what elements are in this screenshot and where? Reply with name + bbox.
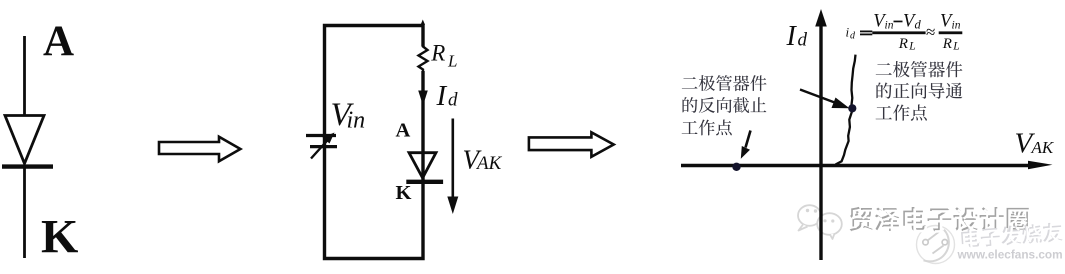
svg-text:R: R <box>942 36 952 52</box>
loop current direction nub (top-right corner) <box>421 20 425 25</box>
annotation: reverse cutoff operating point (CJK) <box>682 77 698 88</box>
svg-text:AK: AK <box>1031 138 1055 157</box>
svg-text:www.elecfans.com: www.elecfans.com <box>957 248 1063 262</box>
svg-text:A: A <box>396 120 411 142</box>
operating point dot (forward) <box>848 104 856 112</box>
formula id=(Vin-Vd)/RL approx Vin/RL <box>846 11 961 52</box>
diode forward curve <box>836 55 856 165</box>
watermark text Mouzer design circle <box>850 207 873 231</box>
watermark wechat bubbles logo <box>798 205 842 239</box>
svg-text:K: K <box>41 211 78 264</box>
operating point dot (reverse, on axis) <box>732 163 740 171</box>
svg-text:d: d <box>448 90 458 111</box>
resistor RL zigzag <box>419 44 428 71</box>
svg-text:R: R <box>430 41 445 66</box>
source Vin bottom plate <box>310 145 337 148</box>
diode D-left cathode bar <box>2 164 53 168</box>
svg-text:in: in <box>885 19 894 31</box>
annotation: forward conduction operating point (CJK) <box>876 63 892 75</box>
wire: anode lead of big diode <box>23 36 26 116</box>
svg-text:L: L <box>952 40 959 52</box>
diode D-left triangle <box>5 116 44 164</box>
svg-text:K: K <box>396 182 412 204</box>
svg-text:A: A <box>43 18 74 65</box>
svg-text:L: L <box>447 51 457 70</box>
axis Id (vertical) <box>819 24 822 260</box>
watermark elecfans CJK <box>961 222 1064 250</box>
block arrow 1 (symbol-to-circuit) <box>159 137 240 162</box>
pointer arrow to forward dot <box>800 90 840 105</box>
svg-text:i: i <box>846 25 850 40</box>
wire: cathode lead of big diode <box>23 166 26 258</box>
svg-text:L: L <box>908 40 915 52</box>
block arrow 2 (circuit-to-curve) <box>529 132 614 157</box>
svg-text:d: d <box>915 17 922 31</box>
voltage VAK arrow <box>451 119 454 199</box>
svg-text:I: I <box>786 21 798 52</box>
svg-text:d: d <box>798 30 808 51</box>
wire loop (circuit rectangle, gap for resistor) <box>325 26 424 259</box>
current Id arrowhead on wire <box>418 91 428 106</box>
svg-text:I: I <box>436 80 448 112</box>
pointer arrow to reverse dot <box>746 131 751 148</box>
svg-text:in: in <box>347 108 366 134</box>
diode D1 cathode bar <box>406 180 443 184</box>
source Vin top plate <box>306 134 336 137</box>
svg-text:≈: ≈ <box>926 23 935 42</box>
diode D1 triangle <box>409 153 436 178</box>
axis VAK (horizontal) <box>681 164 1035 167</box>
source Vin variability arrow <box>311 138 330 159</box>
svg-text:AK: AK <box>475 153 503 174</box>
svg-text:d: d <box>850 31 856 42</box>
watermark elecfans disc logo <box>917 226 955 264</box>
svg-text:in: in <box>952 19 961 31</box>
svg-text:R: R <box>898 36 908 52</box>
